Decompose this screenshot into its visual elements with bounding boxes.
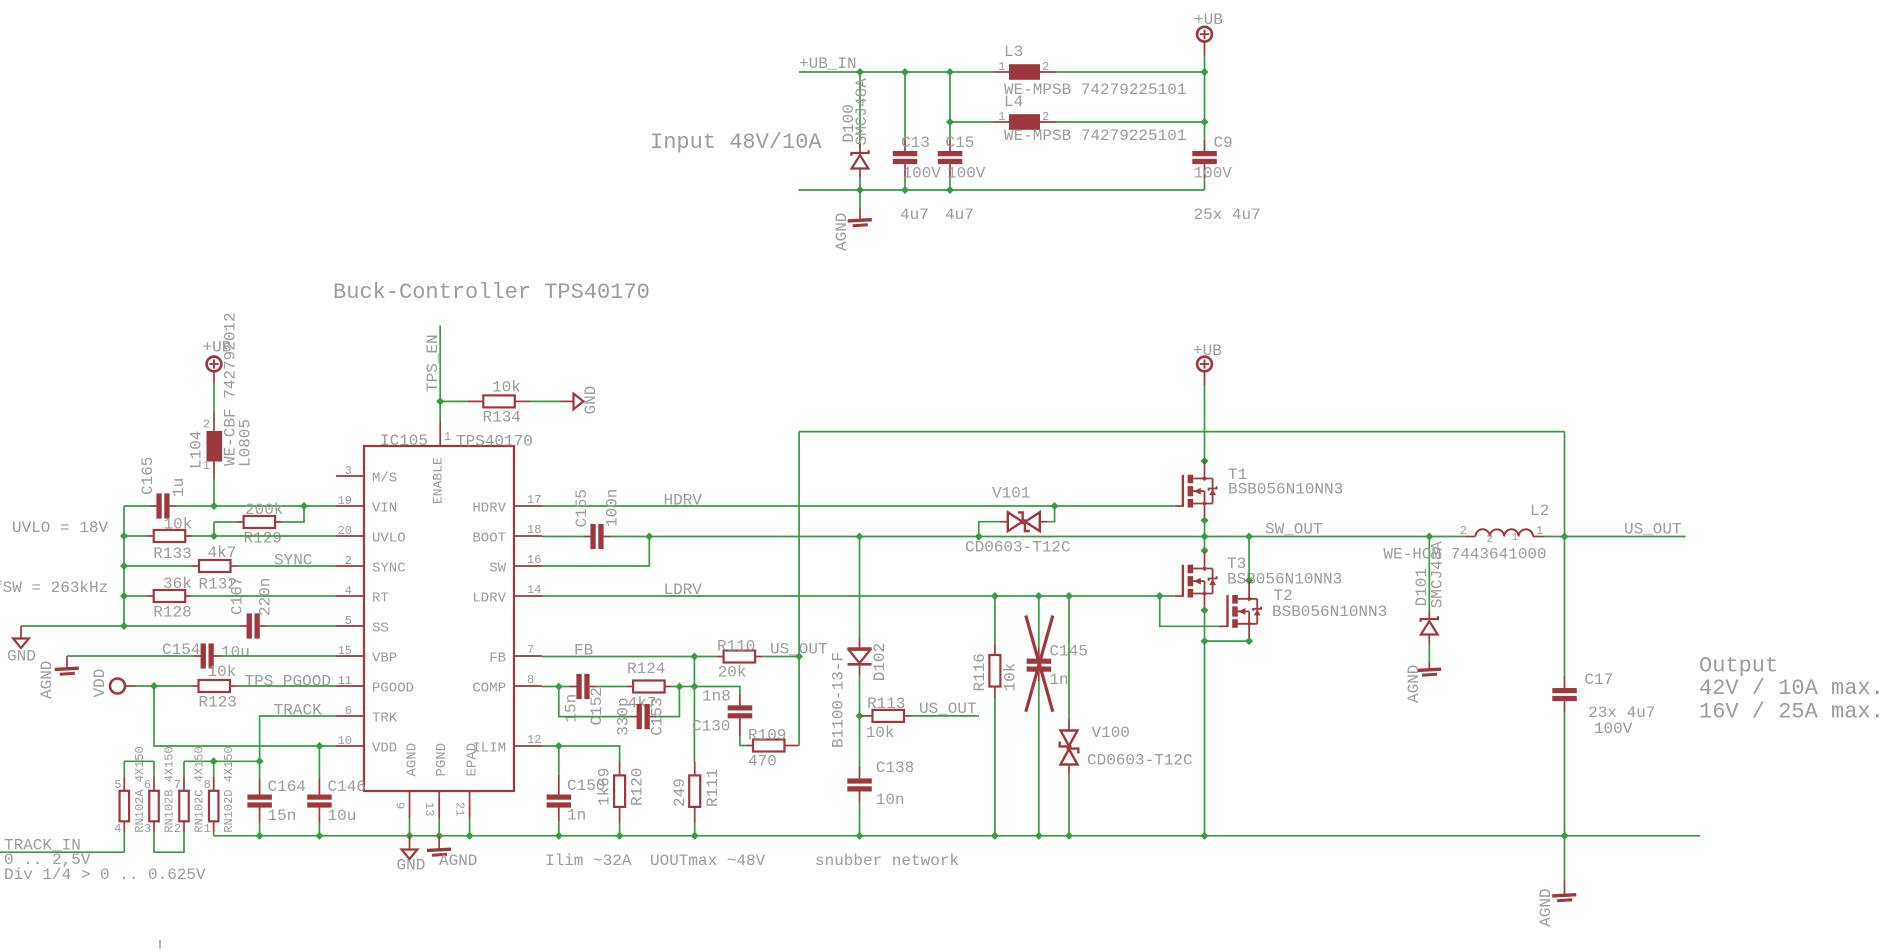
resistor R113 [873,710,905,722]
capacitor C153 right lead [650,716,657,718]
resistor R111 bottom lead [694,807,696,823]
resistor R109 left lead [746,745,753,747]
svg-text:Buck-Controller TPS40170: Buck-Controller TPS40170 [333,280,650,305]
junction left rail UVLO [120,532,128,540]
IC pin 3 (M/S) [336,475,364,477]
svg-text:GND: GND [582,386,600,415]
ground AGND (output) [1552,895,1576,896]
svg-text:R110: R110 [717,638,755,656]
resistor RN102D top lead [213,776,215,791]
wire V101 right [1048,506,1055,522]
junction input [856,68,864,76]
resistor R134 left lead [468,400,483,402]
wire R124 out [671,686,679,688]
inductor L3 pin1 lead [994,71,1010,73]
svg-text:1: 1 [998,110,1005,124]
junction ground rail [315,832,323,840]
capacitor C130 top lead [739,694,741,705]
junction LDRV / V100 [1065,592,1073,600]
diode D102 B1100-13-F [848,647,872,650]
wire RN102C top [183,761,185,776]
svg-text:4u7: 4u7 [900,206,929,224]
junction input [901,68,909,76]
wire +UB to T1 drain [1204,385,1206,461]
GND lead (SS) [20,626,22,639]
svg-text:100n: 100n [604,489,622,527]
svg-text:21: 21 [453,802,467,816]
capacitor C9 bottom lead [1204,164,1206,178]
svg-text:C152: C152 [588,687,606,725]
svg-text:L0805: L0805 [237,419,255,467]
capacitor C167 [247,613,252,638]
svg-text:R109: R109 [748,727,786,745]
capacitor C9 [1192,151,1217,156]
resistor R111 [689,775,700,807]
wire VDD to R123 [136,685,192,687]
junction tap / RN102D [210,757,218,765]
wire FB row [542,656,694,658]
svg-text:10: 10 [338,734,352,748]
wire RN102B top [153,761,155,776]
junction SW_OUT / SW pin [645,533,653,541]
svg-text:L104: L104 [188,431,206,469]
capacitor C164 top lead [259,779,261,795]
svg-text:8: 8 [527,673,534,687]
svg-text:CD0603-T12C: CD0603-T12C [965,539,1071,557]
capacitor C154 right lead [214,655,221,657]
svg-text:100V: 100V [1594,720,1633,738]
wire C138 to rail [859,802,861,836]
wire ILIM row [542,745,559,747]
GND lead [561,400,574,402]
ground AGND (input) [848,220,872,221]
resistor R116 top lead [994,644,996,655]
inductor L4 [1009,114,1040,130]
svg-text:C13: C13 [901,134,930,152]
svg-text:L3: L3 [1004,43,1023,61]
wire FB to COMP junction [693,657,695,687]
junction VIN / R129 [300,502,308,510]
wire VBP row left [67,655,194,657]
wire R113 to US_OUT stub [911,715,979,717]
svg-text:TPS_PGOOD: TPS_PGOOD [245,673,331,691]
ground AGND (pin 13) [427,849,451,850]
IC pin 10 (VDD) [336,745,364,747]
+UB stub (power) [1204,371,1206,385]
svg-text:CD0603-T12C: CD0603-T12C [1087,752,1193,770]
wire RN102A bottom to TRACK_IN [123,833,125,853]
junction input [946,68,954,76]
junction COMP [555,683,563,691]
wire L2 to US_OUT [1544,536,1565,538]
junction ground rail [856,832,864,840]
svg-text:D102: D102 [871,643,889,681]
svg-text:7: 7 [527,643,534,657]
ground GND (R134) [574,394,584,410]
diode D102 top lead [859,638,861,648]
wire D102 to R113 junction [859,675,861,716]
svg-text:R123: R123 [199,694,237,712]
svg-text:BSB056N10NN3: BSB056N10NN3 [1272,603,1387,621]
wire C164 to rail [259,822,261,836]
resistor R133 [154,530,186,542]
capacitor C154 [201,643,206,668]
svg-text:R133: R133 [153,545,191,563]
svg-text:L4: L4 [1004,93,1023,111]
wire C145 to rail [1038,681,1040,836]
ground AGND (C154) [55,668,79,669]
wire TRACK_IN [0,851,124,853]
resistor R116 bottom lead [994,687,996,699]
wire pin 13 to ground rail [438,818,440,836]
IC pin 13 (PGND) [438,791,440,818]
junction ground rail [256,832,264,840]
wire COMP to C152 [559,686,570,688]
junction input [946,118,954,126]
svg-text:1: 1 [444,430,451,444]
capacitor C165 [156,493,161,518]
capacitor C13 top lead [904,140,906,151]
AGND lead (output) [1564,881,1566,895]
wire divider tap [184,760,260,762]
wire L104 to VIN row [213,479,215,506]
wire BOOT row [542,536,584,538]
IC pin 18 (BOOT) [514,535,542,537]
junction SW_OUT / D101 [1425,533,1433,541]
wire left rail [123,506,125,626]
capacitor C138 top lead [859,767,861,778]
capacitor C167 left lead [240,625,247,627]
svg-text:36k: 36k [163,575,192,593]
svg-text:2: 2 [1042,110,1049,124]
svg-text:UVLO = 18V: UVLO = 18V [12,519,108,537]
capacitor C150 top lead [558,775,560,795]
svg-text:11: 11 [338,674,352,688]
IC pin 9 (AGND) [409,791,411,818]
IC pin 7 (FB) [514,655,542,657]
junction PGOOD / VDD branch [150,682,158,690]
junction ground rail [406,832,414,840]
junction left rail SS [120,622,128,630]
junction SW_OUT / D102 [856,533,864,541]
svg-text:fSW = 263kHz: fSW = 263kHz [0,579,108,597]
inductor L104 [207,431,223,462]
svg-text:16: 16 [527,553,541,567]
wire C17 to rail and AGND [1564,712,1566,881]
junction ground rail [616,832,624,840]
wire SS row [21,625,240,627]
junction ground rail [1065,832,1073,840]
junction left rail RT [120,592,128,600]
resistor R129 [244,516,276,528]
capacitor C167 right lead [260,625,267,627]
wire US_OUT feedback top rail [799,431,1564,433]
resistor R120 [614,775,625,807]
wire R120 to rail [619,822,621,836]
wire TRK to C164 [259,761,261,779]
resistor R128 [154,590,186,602]
TVS V101 CD0603-T12C [1008,512,1023,531]
svg-text:L2: L2 [1530,502,1549,520]
wire TPS_EN vertical [439,326,441,422]
capacitor C15 top lead [949,140,951,151]
svg-text:200k: 200k [245,501,283,519]
junction UVLO / R129 [210,532,218,540]
wire RN102 B-C bottoms [154,833,184,853]
svg-text:4u7: 4u7 [945,206,974,224]
resistor R133 right lead [185,535,192,537]
wire RN102A top [123,761,125,776]
ground GND (SS row) [13,639,29,649]
resistor R124 [633,681,665,693]
svg-text:1u: 1u [170,478,188,497]
junction SW_OUT / T2 drain [1245,533,1253,541]
svg-text:SYNC: SYNC [372,561,406,577]
svg-text:2: 2 [203,418,210,432]
wire COMP row [542,686,559,688]
junction T3/T2 source [1201,637,1209,645]
AGND lead (pin 13) [438,836,440,849]
DNP cross over C145 [1026,616,1053,712]
junction ground rail [466,832,474,840]
wire C167 to pin 5 [267,625,336,627]
resistor R132 right lead [231,565,238,567]
junction LDRV / C145 [1035,592,1043,600]
supply +UB (L104) [207,357,222,372]
resistor R129 right lead [275,521,282,523]
svg-text:100V: 100V [903,165,942,183]
junction input [856,186,864,194]
svg-text:9: 9 [393,802,407,809]
capacitor C138 bottom lead [859,792,861,803]
capacitor C130 [728,705,753,710]
resistor RN102A bottom lead [123,821,125,832]
junction ground rail [691,832,699,840]
resistor RN102C bottom lead [183,821,185,832]
wire input ground rail [799,189,1205,191]
wire to R134 [440,400,468,402]
junction SW_OUT / V101 [975,533,983,541]
svg-text:SYNC: SYNC [274,552,312,570]
junction FB / R110 / R111 [690,653,698,661]
svg-text:LDRV: LDRV [472,591,506,607]
capacitor C145 [1027,659,1052,664]
svg-text:C164: C164 [268,778,306,796]
svg-text:249: 249 [671,778,689,807]
resistor R123 left lead [192,685,199,687]
resistor R128 left lead [147,595,154,597]
svg-text:UOUTmax ~48V: UOUTmax ~48V [650,852,766,870]
resistor R132 [199,560,231,572]
inductor L2 [1475,529,1533,536]
svg-text:WE-MPSB 74279225101: WE-MPSB 74279225101 [1004,81,1186,99]
junction ILIM [555,742,563,750]
svg-text:42V / 10A max.: 42V / 10A max. [1699,676,1884,701]
junction COMP-FB vertical [690,683,698,691]
svg-text:HDRV: HDRV [664,492,703,510]
junction left rail SYNC [120,562,128,570]
svg-text:VBP: VBP [372,651,397,667]
svg-text:M/S: M/S [372,471,397,487]
wire C130 to R109 [740,736,746,746]
svg-text:LDRV: LDRV [664,581,703,599]
IC pin 17 (HDRV) [514,505,542,507]
junction input [946,186,954,194]
wire D100 AGND stub [859,190,861,208]
+UB stub (L104) [213,371,215,383]
IC pin 12 (ILIM) [514,745,542,747]
wire US_OUT feedback vertical [798,432,800,746]
svg-text:C17: C17 [1584,671,1613,689]
svg-text:470: 470 [748,753,777,771]
IC pin 20 (UVLO) [336,535,364,537]
capacitor C152 [576,674,581,699]
wire RN102D top [213,761,215,776]
svg-text:10k: 10k [492,379,521,397]
V100 top lead [1068,719,1070,731]
wire +UB to L104 [213,383,215,412]
wire R133 to junction [192,535,214,537]
svg-text:HDRV: HDRV [472,501,506,517]
wire R113 junction to C138 [859,716,861,767]
stray mark [159,940,161,948]
wire C154 to pin 15 [221,655,336,657]
svg-text:ENABLE: ENABLE [431,457,446,504]
svg-text:4: 4 [114,822,121,836]
wire LDRV to T2 gate [1160,596,1222,626]
svg-text:16V / 25A max.: 16V / 25A max. [1699,700,1884,725]
wire C13 top [904,72,906,140]
wire R123 to pin 11 [237,685,336,687]
wire C146 to rail [318,822,320,836]
resistor network RN102D [209,791,219,822]
IC pin 1 (ENABLE) [439,421,441,446]
svg-text:R128: R128 [153,604,191,622]
svg-text:UVLO: UVLO [372,531,406,547]
svg-text:15n: 15n [563,694,581,723]
supply +UB (input) [1197,27,1212,42]
svg-text:AGND: AGND [405,743,421,777]
wire C153 loop left [559,687,630,717]
junction input [901,186,909,194]
wire UVLO to pin 20 [214,535,336,537]
svg-text:R113: R113 [867,695,905,713]
wire +UB_IN row to L3 pin1 [799,71,994,73]
svg-text:SW: SW [489,561,506,577]
junction LDRV / R116 [991,592,999,600]
resistor R128 right lead [185,595,192,597]
svg-text:220n: 220n [257,578,275,616]
resistor network RN102C [179,791,189,822]
capacitor C9 top lead [1204,140,1206,151]
capacitor C153 [637,704,642,729]
wire C155 to SW junction [611,536,650,538]
resistor R110 [724,651,756,663]
resistor RN102B bottom lead [153,821,155,832]
wire R129 left jog [214,521,237,523]
diode D100 top lead [859,143,861,153]
svg-text:US_OUT: US_OUT [1624,521,1682,539]
svg-text:6: 6 [144,778,151,792]
IC pin 4 (RT) [336,595,364,597]
svg-text:5: 5 [114,778,121,792]
svg-text:SMCJ48A: SMCJ48A [853,78,871,146]
IC pin 5 (SS) [336,625,364,627]
junction T2 source [1245,637,1253,645]
resistor RN102A top lead [123,776,125,791]
wire VIN row left [124,505,150,507]
svg-text:FB: FB [574,642,593,660]
svg-text:SW_OUT: SW_OUT [1265,521,1323,539]
svg-text:R116: R116 [971,653,989,691]
svg-text:2: 2 [1042,60,1049,74]
junction T1 source [1201,516,1209,524]
wire VDD to C146 [318,746,320,779]
svg-text:R129: R129 [244,530,282,548]
wire C153 loop right [657,687,680,717]
resistor RN102C top lead [183,776,185,791]
svg-text:Output: Output [1699,654,1778,679]
svg-text:1: 1 [204,822,211,836]
svg-text:C167: C167 [229,577,247,615]
IC pin 15 (VBP) [336,655,364,657]
IC pin 6 (TRK) [336,715,364,717]
port VDD [110,679,125,694]
svg-text:VIN: VIN [372,501,397,517]
svg-text:3: 3 [144,822,151,836]
transistor T1 BSB056N10NN3 [1175,461,1217,521]
svg-text:WE-HCM 7443641000: WE-HCM 7443641000 [1383,546,1546,564]
svg-text:10u: 10u [221,644,250,662]
capacitor C145 top lead [1038,648,1040,659]
svg-text:2: 2 [1487,534,1494,546]
svg-text:14: 14 [527,583,541,597]
capacitor C13 [893,151,918,156]
V100 bottom lead [1068,765,1070,775]
wire V101 left [979,522,1000,537]
junction ground rail [1561,832,1569,840]
wire SYNC left [124,565,192,567]
svg-text:5: 5 [345,614,352,628]
wire UVLO left [124,535,147,537]
svg-text:10k: 10k [164,516,193,534]
junction input [1201,68,1209,76]
AGND lead (input) [859,208,861,220]
svg-text:AGND: AGND [439,852,477,870]
resistor R124 left lead [627,686,634,688]
wire R128 to pin 4 [192,595,336,597]
wire D102 top [859,537,861,639]
diode D100 bottom lead [859,169,861,178]
capacitor C150 bottom lead [558,808,560,821]
svg-text:RN102D 4X150: RN102D 4X150 [222,746,236,832]
wire L3 pin2 to +UB column [1057,71,1205,73]
svg-text:12: 12 [527,733,541,747]
junction LDRV / T2 gate branch [1156,592,1164,600]
resistor R129 left lead [237,521,244,523]
svg-text:1: 1 [998,60,1005,74]
svg-text:1n: 1n [1049,671,1068,689]
svg-text:7: 7 [174,778,181,792]
transistor T3 BSB056N10NN3 [1175,551,1217,611]
junction tap / TRK / C164 [256,757,264,765]
ground AGND (D101) [1417,669,1441,670]
svg-text:15: 15 [338,644,352,658]
diode D101 top lead [1428,612,1430,619]
wire C152 to R124 [597,686,627,688]
capacitor C154 left lead [194,655,201,657]
wire pin 21 to ground rail [469,818,471,836]
